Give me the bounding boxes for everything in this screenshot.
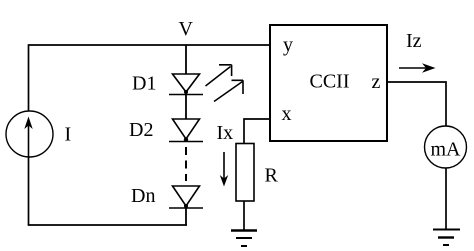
meter mA circle bbox=[425, 126, 467, 168]
wire left vertical branch bbox=[28, 44, 30, 225]
svg-text:CCII: CCII bbox=[310, 71, 350, 93]
node dot Dn apex bbox=[184, 204, 188, 208]
wire resistor bottom to ground bbox=[243, 201, 245, 230]
wire z port to meter bbox=[387, 82, 446, 126]
current arrow Iz shaft bbox=[399, 67, 428, 69]
svg-text:y: y bbox=[283, 34, 293, 56]
LED D2 triangle bbox=[173, 119, 200, 139]
wire top node V from left branch to CCII y input bbox=[29, 44, 271, 46]
op-amp U1 CCII box bbox=[270, 25, 387, 141]
wire D1 to D2 bbox=[185, 92, 187, 119]
node dot D1 apex bbox=[184, 90, 188, 94]
wire Dn to bottom return bbox=[185, 206, 187, 225]
svg-text:Dn: Dn bbox=[131, 185, 155, 207]
svg-text:V: V bbox=[179, 18, 194, 40]
LED D1 triangle bbox=[173, 74, 200, 92]
light arrow 2 shaft bbox=[214, 82, 243, 102]
svg-text:x: x bbox=[282, 103, 292, 125]
current arrow Ix head bbox=[220, 175, 228, 187]
node dot D2 apex bbox=[184, 137, 188, 141]
light arrow 1 shaft bbox=[206, 67, 231, 87]
resistor R body bbox=[236, 144, 254, 202]
LED Dn triangle bbox=[173, 186, 200, 206]
LED D1 cathode bar bbox=[169, 94, 203, 96]
LED Dn cathode bar bbox=[169, 207, 203, 209]
svg-text:D1: D1 bbox=[132, 73, 156, 95]
dashed wire D2 to Dn bbox=[185, 147, 187, 181]
LED D2 cathode bar bbox=[169, 141, 203, 143]
ground under meter bbox=[433, 230, 460, 246]
wire bottom return bbox=[28, 224, 187, 226]
svg-text:R: R bbox=[265, 165, 279, 187]
wire meter to ground bbox=[445, 168, 447, 229]
current arrow Ix shaft bbox=[223, 152, 225, 180]
light arrow 2 head bbox=[232, 80, 244, 94]
light arrow 1 head bbox=[219, 65, 232, 76]
svg-text:I: I bbox=[65, 124, 72, 146]
ground under resistor bbox=[231, 231, 257, 247]
current source I circle bbox=[6, 111, 53, 157]
current source arrowhead bbox=[24, 117, 32, 130]
wire from top node down to D1 bbox=[185, 45, 187, 74]
svg-text:Ix: Ix bbox=[217, 122, 234, 144]
svg-text:D2: D2 bbox=[129, 119, 153, 141]
current source arrow shaft bbox=[28, 122, 30, 157]
svg-text:Iz: Iz bbox=[406, 30, 422, 52]
svg-text:z: z bbox=[372, 71, 381, 93]
wire x port to resistor top bbox=[244, 119, 270, 144]
svg-text:mA: mA bbox=[431, 139, 462, 161]
current arrow Iz head bbox=[422, 63, 436, 73]
